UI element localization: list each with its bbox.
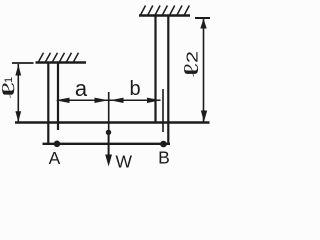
center attachment dot xyxy=(106,130,111,135)
weight W arrowhead xyxy=(105,155,112,167)
svg-text:A: A xyxy=(49,148,61,168)
label l1 xyxy=(0,77,18,101)
right tick xyxy=(162,89,164,132)
wire l1 right line xyxy=(57,63,59,130)
l1 dimension line xyxy=(17,64,19,122)
a left arrowhead xyxy=(56,98,70,103)
l2 down arrowhead xyxy=(201,111,207,122)
a-b dimension line xyxy=(57,99,161,101)
l1 down arrowhead xyxy=(15,111,21,122)
center tick xyxy=(108,92,110,132)
svg-text:2: 2 xyxy=(185,51,202,63)
pivot dot A xyxy=(54,141,61,148)
left ceiling support line xyxy=(36,61,87,64)
svg-text:1: 1 xyxy=(3,77,15,83)
l2 extension line xyxy=(195,17,210,19)
weight W line xyxy=(108,132,110,163)
l1 up arrowhead xyxy=(15,65,21,76)
l2 dimension line xyxy=(203,19,205,122)
svg-text:b: b xyxy=(129,78,140,100)
wire l2 left line xyxy=(154,16,156,124)
b left arrowhead xyxy=(110,98,124,103)
bar (long horizontal line) xyxy=(15,121,210,123)
right ceiling hatching xyxy=(141,6,190,16)
l2 up arrowhead xyxy=(200,19,206,29)
link line (bar AB) xyxy=(43,143,171,145)
pivot dot B xyxy=(160,141,167,148)
svg-text:W: W xyxy=(116,152,133,172)
a right arrowhead xyxy=(95,98,109,103)
left ceiling hatching xyxy=(39,53,79,62)
wire l1 left line xyxy=(47,63,49,145)
svg-text:ℓ: ℓ xyxy=(181,62,203,77)
right ceiling support line xyxy=(139,14,190,17)
svg-text:a: a xyxy=(75,76,88,101)
l1 top extension line xyxy=(12,62,34,64)
wire l2 right line xyxy=(167,16,169,145)
svg-text:B: B xyxy=(158,148,170,168)
b right arrowhead xyxy=(147,98,161,103)
label l2 xyxy=(181,51,203,77)
